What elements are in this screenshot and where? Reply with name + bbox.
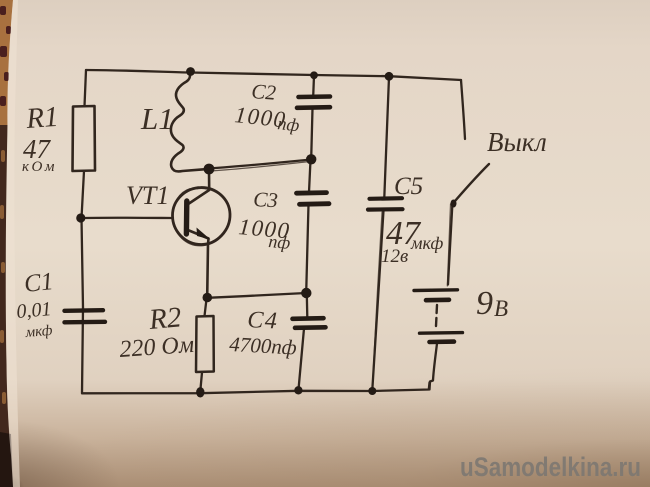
- svg-text:uSamodelkina.ru: uSamodelkina.ru: [460, 452, 641, 482]
- svg-text:L1: L1: [140, 101, 174, 136]
- svg-text:C5: C5: [394, 173, 423, 200]
- svg-text:R2: R2: [147, 301, 183, 336]
- svg-text:C3: C3: [253, 187, 279, 212]
- svg-text:мкф: мкф: [24, 323, 54, 341]
- svg-text:4700пф: 4700пф: [229, 332, 298, 359]
- svg-text:0,01: 0,01: [16, 298, 53, 323]
- svg-text:VT1: VT1: [126, 181, 169, 210]
- svg-text:9: 9: [476, 285, 493, 322]
- svg-text:C4: C4: [247, 307, 279, 335]
- svg-text:пф: пф: [277, 113, 301, 135]
- svg-text:пф: пф: [268, 231, 292, 253]
- svg-text:В: В: [494, 296, 508, 321]
- svg-text:Выкл: Выкл: [487, 127, 547, 157]
- svg-text:220 Ом: 220 Ом: [119, 332, 195, 363]
- svg-text:R1: R1: [24, 101, 59, 135]
- svg-text:C1: C1: [23, 268, 55, 298]
- svg-text:кОм: кОм: [22, 159, 57, 175]
- svg-text:мкф: мкф: [410, 233, 443, 253]
- svg-text:C2: C2: [251, 79, 278, 105]
- svg-text:12в: 12в: [381, 246, 408, 267]
